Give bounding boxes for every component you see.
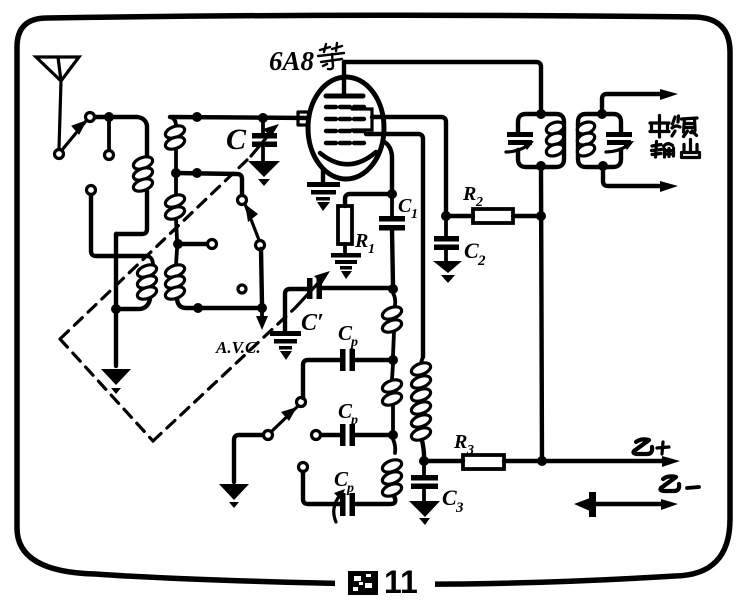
padder Cp2 terminal [312,431,321,440]
node D junction dot [171,168,181,178]
node F junction dot [193,303,203,313]
svg-text:C: C [226,123,247,156]
wire from S1 to node A [95,115,137,119]
IF primary trimmer plates [507,132,533,137]
svg-text:R: R [453,431,467,453]
wire C' left lead to ground [285,289,307,331]
svg-text:R: R [462,183,476,205]
caption tu character block [348,571,378,595]
wire S2 to AVC bus [261,249,262,304]
B minus arrow symbol [596,502,663,506]
capacitor C (tuning, RF) lead [261,118,265,133]
AVC drop arrow [260,308,264,318]
coil L3b (secondary middle) [164,178,187,240]
svg-text:C: C [398,195,412,217]
wire grid3 row to oscillator anode coil [366,134,423,357]
wire plate to IF transformer [344,62,541,112]
node D2 junction dot [192,168,202,178]
B+ arrow head [662,456,680,467]
node P junction dot [537,456,547,466]
wire L4 bottom [356,496,395,504]
wire S3 to ground [234,435,263,482]
coil L4b [381,364,404,431]
capacitor C' plates [307,278,313,299]
wire coil L1 bottom to ground riser [116,191,147,234]
padder Cp3 terminal [299,463,308,472]
wire to R1 [345,194,388,206]
band switch S2 arm arrowhead [245,204,258,222]
svg-text:C: C [442,485,457,510]
capacitor C1 lower lead to osc tank [392,230,393,285]
capacitor Cp3 trimmer arrow [334,495,340,522]
B+ rail vertical [541,167,542,461]
antenna [36,57,79,149]
node G junction dot [257,303,267,313]
wire L5 bottom to node O [422,440,424,461]
wire node O to R3 [428,459,463,463]
capacitor C2 lead [444,220,448,236]
wire Cp3 terminal riser [303,472,340,504]
capacitor C2 plates [434,236,459,242]
tube U1 cathode lead [321,169,325,182]
wire C' right lead [322,286,393,290]
padder Cp1 terminal [297,398,306,407]
svg-text:11: 11 [384,564,418,600]
capacitor Cp1 plates [340,349,346,371]
svg-text:A.V.C.: A.V.C. [215,338,261,357]
capacitor C rotor arrow [251,131,272,156]
coil L4c [381,439,404,499]
node L junction dot (osc tank top) [388,284,398,294]
band switch S2 spare contact [238,285,246,293]
svg-text:p: p [350,335,358,350]
svg-text:3: 3 [455,500,464,516]
node B junction dot [111,304,121,314]
capacitor C' rotor arrow [296,281,320,307]
coil L3c (secondary lower) [164,249,187,302]
band switch S2 contact bottom [256,241,265,250]
node N junction dot (Cp2 tap) [388,430,398,440]
node I junction dot [387,189,397,199]
IF transformer primary box [518,114,564,167]
capacitor C3 plates [411,475,438,481]
spare terminal circle [105,151,114,160]
resistor R2 [473,209,513,223]
coil L3a (secondary upper) [164,117,187,169]
capacitor C1 lead [390,194,394,216]
node E junction dot [173,239,183,249]
coil L5 (osc anode) [410,357,433,443]
wire tap to terminal [178,242,207,246]
wire terminal to coil L2 top [91,195,148,256]
capacitor C plates [252,133,277,139]
node M junction dot (Cp1 tap) [388,355,398,365]
svg-text:C′: C′ [301,310,324,336]
node J junction dot (screen rail) [441,211,451,221]
osc switch S3 arm [272,406,298,431]
capacitor C2 lower lead [444,250,448,261]
tube U1 stem connector [298,112,308,125]
band switch S2 arm [245,204,259,240]
ground (below C) [248,161,280,186]
tube U1 screen box [352,109,372,130]
osc switch S3 arrowhead [281,407,297,421]
IF primary trimmer arrow [506,146,527,152]
svg-text:2: 2 [477,253,486,269]
ground (antenna section) [101,369,131,394]
IF secondary trimmer plates [606,132,632,137]
switch S1 arm arrowhead [72,121,86,134]
node H junction dot [258,113,268,123]
node S junction dot [597,109,607,119]
svg-text:C: C [464,238,479,263]
node R junction dot [536,161,546,171]
wire Cp1 to tap [355,358,393,362]
coil L4a (osc tank) [381,293,404,355]
wire Cp2 terminal [321,433,340,437]
resistor R3 [463,455,504,469]
label deng character [318,43,344,69]
IF secondary coil [576,120,597,158]
svg-text:1: 1 [368,242,375,257]
capacitor Cp2 plates [340,424,346,446]
dashed gang link upper [60,160,247,339]
node A junction dot [104,112,114,122]
wire Cp2 to tap [355,433,393,437]
node T junction dot [598,161,608,171]
wire node A to coil L1 top [137,117,147,157]
svg-text:1: 1 [411,207,418,222]
svg-text:R: R [354,230,368,252]
switch S1 moving contact [55,150,64,159]
resistor R1 [338,206,352,244]
wire grid line (node C to tube) [170,117,309,118]
ground (C2) [433,261,462,283]
svg-text:p: p [350,413,358,428]
tube U1 grid rows [326,107,364,143]
capacitor Cp3 plates [340,493,346,516]
label zhongpin shuchu (IF output) [650,116,700,158]
wire Cp1 terminal riser [303,360,340,398]
capacitor C3 lower lead [422,489,426,501]
capacitor C3 lead [422,461,426,475]
node Q junction dot [536,109,546,119]
wire coil L3c bottom to AVC bus [177,299,262,308]
svg-text:6A8: 6A8 [269,46,315,76]
tube U1 cathode arc [320,152,376,164]
coil L2 (band-2 primary) [136,256,159,302]
wire tap to band switch [176,173,242,195]
node O junction dot [419,456,429,466]
svg-text:2: 2 [475,195,483,210]
R1 lower lead [343,244,347,253]
caption area whiteout [335,564,435,596]
band switch S2 contact top [238,196,247,205]
svg-text:p: p [346,481,354,496]
wire coil L2 bottom to node B [116,299,150,309]
node K junction dot [536,211,546,221]
dashed gang link left [60,339,153,441]
capacitor C lead lower [261,147,265,161]
switch S1 fixed contact [86,113,95,122]
switch S1 arm [62,121,86,150]
terminal circle tap2 [208,240,217,249]
ground (cathode) hatched [307,182,340,211]
IF output top wire [602,94,663,110]
tube U1 top cap lead [342,62,346,95]
ground (R1) hatched [331,253,361,279]
label yi+ (B plus) [634,439,670,454]
terminal circle (antenna tap) [87,186,96,195]
osc switch S3 contact [264,431,273,440]
IF transformer secondary box [578,114,621,167]
tube U1 6A8 envelope [308,77,384,179]
wire R2 to B+ rail [513,214,541,218]
capacitor C1 plates [379,216,405,222]
wire to R2 [446,214,473,218]
ground (C' / AVC) hatched [270,331,301,360]
wire screen grids to R2/C2 rail [372,117,446,212]
wire grid1 lead down [383,141,392,191]
wire R3 to B+ [504,459,665,463]
ground (C3) [409,501,440,525]
label yi- (B minus) [661,476,700,491]
svg-text:3: 3 [466,443,474,458]
dashed gang link lower [153,308,295,441]
node C junction dot [192,112,202,122]
tube U1 anode bar [326,94,363,99]
IF output bottom wire [603,167,663,186]
wire ground riser [114,234,118,366]
IF secondary trimmer arrow [606,146,627,152]
IF primary coil [545,120,566,158]
wire stub to spare terminal [107,121,111,150]
ground (osc switch) [219,484,249,508]
coil L1 (antenna primary) [132,154,155,193]
